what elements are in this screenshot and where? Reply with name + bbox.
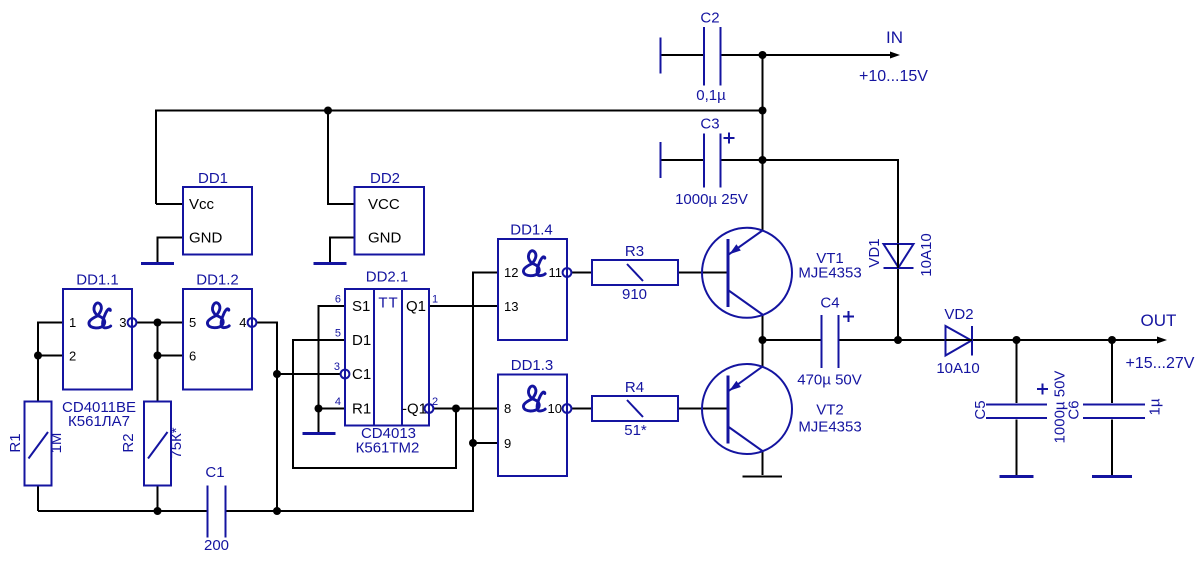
node S1-R1 junction [315, 405, 323, 413]
ground S1-R1 [303, 432, 336, 435]
svg-text:Vcc: Vcc [189, 196, 215, 213]
node supply rail junction [759, 107, 767, 115]
wire C5 leads [1016, 340, 1018, 403]
svg-text:C5: C5 [972, 400, 989, 419]
svg-text:DD2.1: DD2.1 [366, 269, 409, 286]
wire bottom rail left of C1 [38, 510, 207, 512]
svg-text:DD1: DD1 [198, 170, 228, 187]
svg-text:10A10: 10A10 [936, 360, 979, 377]
svg-text:8: 8 [504, 401, 511, 416]
node clock junction [273, 370, 281, 378]
svg-text:1: 1 [432, 294, 438, 306]
IN arrowhead [890, 52, 900, 59]
wire output node horizontal [763, 339, 821, 341]
node pin9 junction [469, 439, 477, 447]
svg-text:1M: 1M [48, 433, 65, 454]
AND symbol [89, 303, 111, 328]
svg-text:1µ: 1µ [1146, 398, 1163, 415]
VD1 triangle [884, 244, 914, 268]
svg-text:5: 5 [189, 315, 196, 330]
svg-text:R2: R2 [120, 433, 137, 452]
svg-text:К561ТМ2: К561ТМ2 [356, 440, 420, 457]
svg-text:D1: D1 [352, 332, 371, 349]
OUT arrowhead [1157, 337, 1167, 344]
svg-text:75К*: 75К* [168, 427, 185, 458]
VT1 emitter [728, 231, 763, 256]
wire DD1.2 pin6 input [158, 355, 184, 357]
svg-text:R1: R1 [7, 433, 24, 452]
svg-text:+15...27V: +15...27V [1126, 355, 1195, 372]
inversion bubble pin 4 [248, 318, 257, 327]
AND symbol [523, 386, 545, 411]
svg-text:470µ 50V: 470µ 50V [797, 372, 862, 389]
svg-text:VCC: VCC [368, 196, 400, 213]
wire R1 bottom lead [37, 486, 39, 512]
wire VT2 collector to ground [762, 451, 764, 475]
svg-text:VD1: VD1 [866, 238, 883, 267]
svg-text:13: 13 [504, 299, 518, 314]
gate DD1.4 [498, 222, 571, 341]
wire VT1 collector to output node [762, 315, 764, 341]
wire VD2 cathode to OUT [972, 339, 1160, 341]
svg-text:IN: IN [886, 28, 903, 47]
svg-text:R4: R4 [625, 379, 644, 396]
wire Q1 output to DD1.4 pin13 [429, 305, 498, 307]
svg-text:5: 5 [335, 328, 341, 340]
AND symbol [207, 303, 229, 328]
svg-text:DD1.2: DD1.2 [196, 272, 239, 289]
capacitor C4 [797, 295, 862, 389]
wire DD2.1 S1 ground [319, 306, 346, 432]
VT2 body circle [702, 364, 792, 454]
wire R3 to VT1 base [678, 272, 728, 274]
svg-text:0,1µ: 0,1µ [696, 87, 726, 104]
node VT collector junction [759, 336, 767, 344]
wire C3 left lead [661, 159, 703, 161]
wire DD2 GND pin [330, 238, 355, 263]
wire through VD2 [946, 339, 973, 341]
svg-text:OUT: OUT [1141, 311, 1177, 330]
resistor R2 [120, 402, 185, 486]
AND symbol [523, 251, 545, 276]
VT2 emitter arrow [729, 381, 741, 391]
flip-flop DD2.1 [334, 269, 438, 426]
node C2 junction [759, 51, 767, 59]
svg-text:-Q1: -Q1 [402, 401, 427, 418]
polarity plus C3 [724, 133, 735, 144]
VT2 base bar [727, 376, 730, 444]
diode VD1 [866, 233, 935, 276]
svg-text:4: 4 [335, 396, 341, 408]
node supply junction at DD2 drop [324, 107, 332, 115]
svg-text:VD2: VD2 [944, 306, 973, 323]
capacitor C2 [661, 10, 727, 105]
wire C6 leads [1111, 340, 1113, 403]
svg-text:C3: C3 [700, 116, 719, 133]
wire VT2 emitter to output node [762, 340, 764, 367]
inversion bubble -Q1 [425, 404, 434, 413]
svg-text:DD2: DD2 [370, 170, 400, 187]
svg-text:51*: 51* [624, 422, 647, 439]
svg-text:R3: R3 [625, 243, 644, 260]
svg-text:S1: S1 [352, 298, 370, 315]
svg-text:C1: C1 [352, 366, 371, 383]
wire top supply rail [156, 111, 763, 205]
svg-text:+10...15V: +10...15V [859, 68, 928, 85]
inversion bubble pin 3 [128, 318, 137, 327]
wire C2 right lead to IN [721, 54, 893, 56]
svg-text:C2: C2 [700, 10, 719, 27]
svg-text:6: 6 [189, 349, 196, 364]
svg-text:1: 1 [69, 315, 76, 330]
diode VD2 [936, 306, 979, 377]
wire D1 feedback loop [293, 340, 456, 468]
svg-text:C4: C4 [820, 295, 839, 312]
svg-text:DD1.3: DD1.3 [511, 357, 554, 374]
svg-text:11: 11 [549, 265, 563, 280]
capacitor C6 [1065, 398, 1163, 419]
svg-text:DD1.4: DD1.4 [510, 222, 553, 239]
ground DD1 [141, 262, 174, 265]
svg-text:12: 12 [504, 265, 518, 280]
svg-text:MJE4353: MJE4353 [798, 419, 861, 436]
resistor R1 [7, 402, 65, 486]
svg-text:6: 6 [335, 294, 341, 306]
IC DD2 power box [355, 170, 425, 255]
node pin2 junction [34, 352, 42, 360]
node clock bottom junction [273, 507, 281, 515]
ground C5 [1000, 475, 1034, 478]
IC DD1 power box [183, 170, 252, 255]
wire -Q1 output to DD1.3 pin8 [434, 408, 499, 410]
VD2 cathode bar [971, 326, 973, 356]
resistor R4 [592, 379, 678, 439]
node C5 junction [1013, 336, 1021, 344]
VT1 base bar [727, 239, 730, 307]
VT1 collector [728, 290, 763, 315]
wire bottom rail right of C1 [227, 273, 499, 512]
wire DD1 GND pin [158, 238, 184, 263]
svg-text:VT2: VT2 [816, 402, 844, 419]
wire DD1.4 pin11 output to R3 [572, 272, 593, 274]
wire R2 bottom lead [157, 486, 159, 512]
wire DD1 Vcc pin [156, 203, 183, 205]
polarity plus C4 [843, 311, 854, 322]
svg-text:MJE4353: MJE4353 [798, 265, 861, 282]
svg-text:10: 10 [548, 401, 562, 416]
VD1 cathode bar [884, 267, 914, 269]
transistor VT2 [702, 364, 862, 454]
wire DD2 Vcc drop [328, 111, 355, 205]
svg-text:C1: C1 [205, 464, 224, 481]
gate DD1.3 [498, 357, 571, 476]
transistor VT1 [702, 228, 862, 318]
wire R2 vertical [157, 323, 159, 402]
wire C4 right to VD2 [839, 339, 945, 341]
node C3 junction [759, 156, 767, 164]
gate DD1.1 [63, 272, 136, 390]
VT1 emitter arrow [729, 244, 741, 254]
svg-text:К561ЛА7: К561ЛА7 [68, 413, 130, 430]
clock input bubble C1 [341, 370, 350, 379]
node pin6 junction [154, 352, 162, 360]
resistor R3 [592, 243, 678, 303]
node feedback junction [452, 405, 460, 413]
wire R4 to VT2 base [678, 408, 728, 410]
svg-text:9: 9 [504, 436, 511, 451]
wire DD2.1 R1 input [319, 408, 346, 410]
wire clock to DD2.1 C1 input [277, 373, 341, 375]
wire DD1.2 pin4 output down to clock [257, 323, 278, 512]
node VD1 output junction [894, 336, 902, 344]
ground DD2 [314, 262, 347, 265]
capacitor C1 [204, 464, 229, 554]
inversion bubble pin 11 [563, 268, 572, 277]
inversion bubble pin 10 [563, 404, 572, 413]
wire DD1.3 pin10 output to R4 [572, 408, 593, 410]
wire through VD1 [897, 244, 899, 268]
VT2 emitter [728, 367, 763, 392]
wire C3 right lead to VD1 [721, 160, 898, 243]
svg-text:DD1.1: DD1.1 [76, 272, 119, 289]
svg-text:GND: GND [368, 230, 402, 247]
capacitor C3 [661, 116, 748, 209]
polarity plus C5 [1037, 384, 1048, 395]
VT1 body circle [702, 228, 792, 318]
node R2 bottom junction [154, 507, 162, 515]
wire VD1 cathode to output node [897, 269, 899, 340]
wire DD1.1 pin3 output to DD1.2 pin5 [137, 322, 184, 324]
VT2 collector [728, 427, 763, 452]
svg-text:200: 200 [204, 537, 229, 554]
gate DD1.2 [183, 272, 256, 390]
VD2 triangle [946, 326, 972, 356]
svg-text:3: 3 [334, 361, 340, 373]
svg-text:1000µ 25V: 1000µ 25V [675, 191, 748, 208]
svg-text:10A10: 10A10 [918, 233, 935, 276]
svg-text:C6: C6 [1065, 400, 1082, 419]
node R2 top junction [154, 319, 162, 327]
wire DD1.1 pin2 input [38, 355, 63, 357]
svg-text:TT: TT [378, 295, 398, 312]
wire DD1.3 pin9 input [473, 442, 498, 444]
ground VT2 [743, 476, 783, 478]
svg-text:910: 910 [622, 286, 647, 303]
node C6 junction [1108, 336, 1116, 344]
svg-text:GND: GND [189, 230, 223, 247]
svg-text:4: 4 [239, 315, 246, 330]
wire main vertical +12V [762, 55, 764, 231]
svg-text:Q1: Q1 [406, 298, 426, 315]
ground C6 [1092, 475, 1132, 478]
wire C2 left lead [661, 54, 703, 56]
svg-text:R1: R1 [352, 401, 371, 418]
capacitor C5 [972, 371, 1069, 444]
svg-text:3: 3 [119, 315, 126, 330]
svg-text:2: 2 [69, 349, 76, 364]
wire DD1.1 pin1 input [38, 323, 63, 402]
